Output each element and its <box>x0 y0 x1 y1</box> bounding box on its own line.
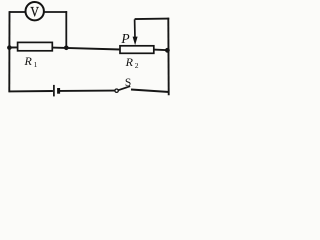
wire left vertical <box>8 11 10 92</box>
wire wiper loop top horizontal <box>135 18 170 21</box>
svg-text:V: V <box>30 3 39 19</box>
switch S pivot circle <box>115 89 118 92</box>
label P (wiper) <box>120 31 129 46</box>
svg-text:2: 2 <box>135 61 139 70</box>
node C (wiper loop meets main line) <box>165 48 170 53</box>
wire voltmeter branch right vertical <box>65 11 67 48</box>
label R2 <box>125 55 139 70</box>
label R1 <box>24 54 38 69</box>
wire main line R1 to R2 <box>52 48 120 50</box>
wire switch to battery <box>60 90 115 92</box>
wire battery to bottom-left corner <box>9 90 53 92</box>
rheostat R2 body <box>120 46 154 54</box>
wire main line left of R1 <box>9 46 18 48</box>
node A (left junction) <box>7 45 12 50</box>
wire right vertical <box>167 18 169 95</box>
battery cell <box>54 85 59 97</box>
wire main line right of R2 <box>154 49 168 52</box>
wire voltmeter to top-right corner <box>44 11 67 13</box>
rheostat wiper arrow <box>133 19 138 45</box>
svg-text:R: R <box>24 54 33 68</box>
svg-text:R: R <box>125 55 134 69</box>
svg-text:1: 1 <box>34 60 38 69</box>
wire bottom right (corner to switch) <box>131 90 169 93</box>
label S <box>125 77 131 89</box>
voltmeter V <box>26 2 44 20</box>
svg-text:S: S <box>125 77 131 89</box>
resistor R1 <box>18 42 53 50</box>
wire top-left horizontal to voltmeter <box>10 11 26 13</box>
node B (junction of voltmeter branch and main line) <box>64 46 69 51</box>
switch S blade <box>118 86 130 90</box>
svg-text:P: P <box>120 31 129 46</box>
